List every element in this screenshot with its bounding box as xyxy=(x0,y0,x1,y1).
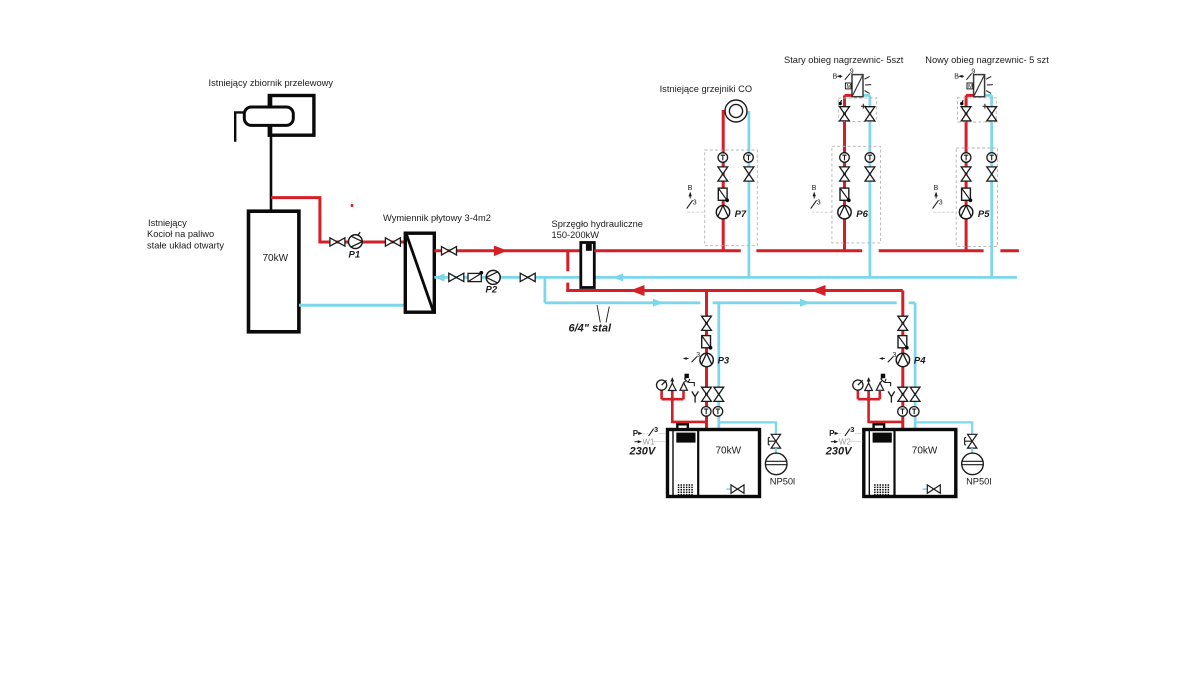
valve (W2 cyan lower) xyxy=(910,387,920,401)
svg-text:P1: P1 xyxy=(349,250,361,261)
svg-text:NP50l: NP50l xyxy=(770,476,795,486)
svg-text:3: 3 xyxy=(696,352,700,359)
valve (W1 cyan lower) xyxy=(714,387,724,401)
red pipe: exchanger to hydraulic separator (supply) xyxy=(434,249,581,252)
svg-text:Istniejące grzejniki CO: Istniejące grzejniki CO xyxy=(660,84,753,94)
cyan branch to expansion vessel W1 xyxy=(719,422,776,434)
svg-text:70kW: 70kW xyxy=(912,446,938,457)
filter (W1) xyxy=(702,336,713,350)
thermometer T (P6 return) xyxy=(865,153,875,163)
svg-text:6/4" stal: 6/4" stal xyxy=(569,323,612,335)
dashed box circuit P7 xyxy=(705,150,758,246)
thermometer T (P7 return) xyxy=(744,153,754,163)
pipe: tank overflow drain xyxy=(235,112,244,141)
svg-text:B: B xyxy=(812,185,817,192)
sensor B arrow (heater P6) xyxy=(833,74,843,81)
svg-text:70kW: 70kW xyxy=(716,446,742,457)
gas valve in boiler W1 xyxy=(726,485,744,493)
red riser gas boiler W1 xyxy=(705,291,708,430)
valve (W2 red lower) xyxy=(898,387,908,401)
drain drop mark (P5) xyxy=(960,100,963,105)
svg-text:230V: 230V xyxy=(825,446,853,458)
cyan riser circuit P7 xyxy=(748,111,751,277)
label: 6/4" stal with callout lines xyxy=(569,305,612,335)
cyan stub vessel W1 xyxy=(775,448,777,453)
check valve / filter on return xyxy=(468,271,483,282)
valve (P7 supply) xyxy=(718,167,728,181)
Y strainer (W2) xyxy=(888,391,895,402)
sensor B (P6) xyxy=(811,185,832,212)
red riser gas boiler W2 xyxy=(901,291,904,430)
sensor B (P5) xyxy=(933,185,957,212)
thermometer T (P7 supply) xyxy=(718,153,728,163)
sensor mark (P4) xyxy=(879,352,896,362)
cyan flow arrow right (lower line, left) xyxy=(653,299,664,307)
plate heat exchanger xyxy=(405,233,434,312)
heater unit (stary obieg) xyxy=(845,69,871,97)
dashed box circuit P5 xyxy=(956,148,997,247)
svg-text:3: 3 xyxy=(654,425,658,434)
svg-text:B: B xyxy=(934,185,939,192)
valve (heater P5 supply) xyxy=(961,107,971,121)
label W2 xyxy=(831,438,863,447)
valve (boiler supply) xyxy=(330,238,345,246)
red riser circuit P5 xyxy=(966,95,974,250)
valve (P5 supply) xyxy=(961,167,971,181)
cyan stub vessel W2 xyxy=(971,448,973,453)
red flow arrow left (return, left) xyxy=(630,285,645,296)
svg-text:P4: P4 xyxy=(914,356,926,367)
valve (exchanger outlet) xyxy=(442,247,457,255)
cyan branch to expansion vessel W2 xyxy=(915,422,972,434)
filter (P6) xyxy=(840,188,851,202)
svg-text:P3: P3 xyxy=(718,356,730,367)
svg-text:B: B xyxy=(833,74,838,81)
boiler W2 grill xyxy=(874,485,890,495)
red safety manifold W2 xyxy=(858,391,903,422)
gas valve in boiler W2 xyxy=(923,485,941,493)
heater unit (nowy obieg) xyxy=(966,69,992,97)
svg-text:B: B xyxy=(954,74,959,81)
cyan return header (circuits to exchanger) xyxy=(434,276,1017,279)
thermometer T (W1 cyan) xyxy=(713,407,723,417)
valve (W1 red lower) xyxy=(702,387,712,401)
pump P1 xyxy=(349,232,363,248)
cyan tee down from return header xyxy=(544,277,547,302)
cyan riser gas boiler W2 xyxy=(914,303,917,430)
valve (W1 red riser top) xyxy=(702,316,712,330)
safety relief valve (W1) xyxy=(680,374,694,391)
pump P2 xyxy=(486,270,500,284)
svg-text:70kW: 70kW xyxy=(263,253,289,264)
sensor mark (P3) xyxy=(683,352,700,362)
valve (return, before separator) xyxy=(520,273,535,281)
red flow arrow left (return, right) xyxy=(811,285,826,296)
red flow arrow right xyxy=(494,246,508,257)
plus mark (P5) xyxy=(983,104,988,109)
svg-text:P5: P5 xyxy=(978,209,990,220)
thermometer T (W2 red) xyxy=(898,407,908,417)
red tee down to return header xyxy=(566,251,569,292)
svg-text:3: 3 xyxy=(939,200,943,207)
svg-text:Stary obieg nagrzewnic- 5szt: Stary obieg nagrzewnic- 5szt xyxy=(784,55,904,65)
svg-text:P2: P2 xyxy=(486,285,498,296)
valve (return, near exchanger) xyxy=(449,273,464,281)
cyan riser circuit P6 xyxy=(863,95,870,277)
svg-text:M: M xyxy=(847,84,852,90)
cyan flow arrow right (lower line, right) xyxy=(800,299,811,307)
gas boiler W1 body xyxy=(668,430,760,497)
stray red dot xyxy=(351,204,354,207)
valve expansion vessel W1 xyxy=(768,434,780,448)
red supply header to circuits xyxy=(594,249,1019,252)
gas boiler W2 body xyxy=(864,430,956,497)
boiler W2 flue stub xyxy=(874,424,885,429)
boiler K0 (solid fuel) body xyxy=(249,211,299,332)
red riser circuit P6 xyxy=(845,95,853,250)
filter (P7) xyxy=(718,188,729,202)
drain drop mark (P6) xyxy=(839,100,842,105)
boiler W1 flue stub xyxy=(677,424,688,429)
svg-text:3: 3 xyxy=(893,352,897,359)
valve (P6 supply) xyxy=(840,167,850,181)
dashed box circuit P6 xyxy=(832,146,881,243)
hydraulic separator (sprzeglo) xyxy=(581,243,595,288)
safety relief valve (W2) xyxy=(876,374,890,391)
boiler W1 display panel xyxy=(676,433,695,443)
filter (P5) xyxy=(962,188,973,202)
svg-text:Istniejący: Istniejący xyxy=(148,218,187,228)
pipe: tank standpipe to boiler xyxy=(270,96,273,211)
label P-3 (W1) xyxy=(633,425,666,438)
valve (heater P6 return) xyxy=(865,107,875,121)
svg-text:Istniejący zbiornik przelewowy: Istniejący zbiornik przelewowy xyxy=(209,78,334,88)
svg-text:Kocioł na paliwo: Kocioł na paliwo xyxy=(147,229,214,239)
svg-text:P7: P7 xyxy=(735,209,747,220)
svg-text:P: P xyxy=(829,429,835,438)
pump P5 xyxy=(959,206,972,219)
cyan flow arrow left (after separator) xyxy=(613,273,624,281)
valve (heater P6 supply) xyxy=(840,107,850,121)
red riser circuit P7 xyxy=(722,110,725,251)
thermometer T (P5 supply) xyxy=(961,153,971,163)
red return header (boilers to separator) xyxy=(566,289,903,292)
expansion vessel NP50l W2 xyxy=(962,453,984,475)
svg-text:230V: 230V xyxy=(629,446,657,458)
safety valve vent (W2) xyxy=(865,377,873,391)
boiler W1 grill xyxy=(678,485,694,495)
cyan riser circuit P5 xyxy=(985,95,992,277)
thermometer T (W1 red) xyxy=(701,407,711,417)
red pipe: boiler to exchanger (supply) xyxy=(271,198,406,242)
red safety manifold W1 xyxy=(662,391,707,422)
sensor B (P7) xyxy=(687,185,705,212)
radiator symbol (grzejniki CO) xyxy=(725,100,747,122)
plus mark (P6) xyxy=(861,104,866,109)
svg-text:P6: P6 xyxy=(856,209,868,220)
label W1 xyxy=(635,438,667,447)
cyan pipe: exchanger to boiler (return) xyxy=(299,304,406,307)
overflow tank vessel xyxy=(244,107,293,125)
valve (W2 red riser top) xyxy=(898,316,908,330)
overflow tank enclosure xyxy=(269,96,314,136)
svg-text:3: 3 xyxy=(817,200,821,207)
label P-3 (W2) xyxy=(829,425,862,438)
valve (P6 return) xyxy=(865,167,875,181)
valve (exchanger inlet) xyxy=(385,238,400,246)
boiler W2 display panel xyxy=(873,433,892,443)
filter (W2) xyxy=(898,336,909,350)
pressure gauge (W2) xyxy=(853,380,863,390)
safety valve vent (W1) xyxy=(669,377,677,391)
svg-text:M: M xyxy=(968,84,973,90)
pump P6 xyxy=(838,206,851,219)
svg-text:3: 3 xyxy=(850,425,854,434)
svg-text:3: 3 xyxy=(693,200,697,207)
cyan riser gas boiler W1 xyxy=(717,303,720,430)
junction dot W1 xyxy=(670,397,674,401)
svg-text:Nowy obieg nagrzewnic- 5 szt: Nowy obieg nagrzewnic- 5 szt xyxy=(925,55,1049,65)
thermometer T (P6 supply) xyxy=(840,153,850,163)
valve (heater P5 return) xyxy=(987,107,997,121)
valve (P7 return) xyxy=(744,167,754,181)
pump P3 xyxy=(700,353,713,366)
valve expansion vessel W2 xyxy=(965,434,977,448)
svg-text:NP50l: NP50l xyxy=(966,476,991,486)
dashed box heater valves P6 xyxy=(838,98,876,122)
thermometer T (P5 return) xyxy=(987,153,997,163)
cyan flow arrow left (at exchanger) xyxy=(435,273,445,281)
svg-text:150-200kW: 150-200kW xyxy=(552,230,600,240)
cyan lower line to gas boilers xyxy=(545,301,915,304)
svg-text:B: B xyxy=(688,185,693,192)
svg-text:Wymiennik płytowy 3-4m2: Wymiennik płytowy 3-4m2 xyxy=(383,213,491,223)
svg-text:Sprzęgło hydrauliczne: Sprzęgło hydrauliczne xyxy=(552,219,643,229)
svg-text:stałe układ otwarty: stałe układ otwarty xyxy=(147,240,224,250)
svg-text:9: 9 xyxy=(850,69,854,76)
junction dot W2 xyxy=(867,397,871,401)
pump P4 xyxy=(896,353,909,366)
expansion vessel NP50l W1 xyxy=(765,453,787,475)
pressure gauge (W1) xyxy=(657,380,667,390)
thermometer T (W2 cyan) xyxy=(909,407,919,417)
Y strainer (W1) xyxy=(692,391,699,402)
svg-text:P: P xyxy=(633,429,639,438)
valve (P5 return) xyxy=(987,167,997,181)
sensor B arrow (heater P5) xyxy=(954,74,964,81)
pump P7 xyxy=(716,206,729,219)
svg-text:9: 9 xyxy=(971,69,975,76)
dashed box heater valves P5 xyxy=(958,98,997,122)
